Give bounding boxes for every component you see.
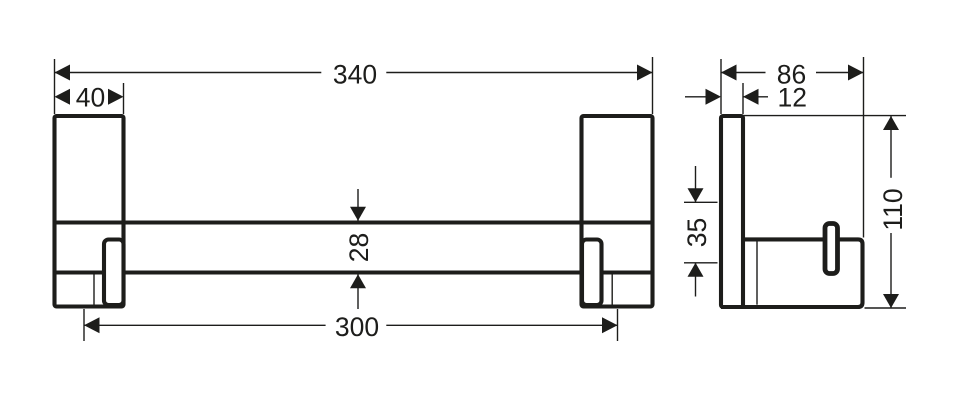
svg-text:12: 12 [778,83,807,113]
extension line left of 86/12 [720,59,722,114]
extension line right of 86 [863,57,865,238]
side view inner edge [756,241,758,304]
svg-text:300: 300 [335,312,379,342]
dim line 35 lower [695,263,697,297]
side view wall plate [721,116,743,307]
side view bar profile [721,239,863,307]
dim line 86 [721,72,766,74]
bar bottom edge [55,270,653,274]
arrow 35 up [688,263,704,277]
right bar holder clip [582,240,602,306]
arrow 110 up [883,116,899,130]
extension line right of 12 [742,83,744,114]
svg-text:28: 28 [344,233,374,262]
arrow 40 left [55,89,71,105]
extension line 35 top [684,201,718,203]
extension line right of 340 [652,57,654,114]
extension line right of 300 [617,309,619,341]
dim line 12 left tail [685,96,706,98]
extension line right of 40 [123,83,125,114]
svg-text:40: 40 [76,83,105,113]
dim line 12 right tail [743,96,768,98]
arrow 300 left [84,317,100,333]
extension line left of 300 [83,309,85,341]
arrow 28 down [350,207,366,221]
arrow 300 right [602,317,618,333]
extension line left of 340/40 [54,59,56,114]
svg-text:35: 35 [682,218,712,247]
arrow 340 left [55,65,71,81]
left bar holder clip [104,240,124,306]
side view clip [825,224,838,274]
arrow 40 right [108,89,124,105]
arrow 35 down [688,188,704,202]
svg-text:340: 340 [333,60,377,90]
dim line 340 [55,72,322,74]
left post outline [55,116,124,307]
bar top edge [55,220,653,224]
dim line 300 [84,324,326,326]
arrow 12 right outside [743,89,759,105]
arrow 28 up [350,274,366,288]
arrow 110 down [883,294,899,308]
dim line 110 [890,116,892,178]
right post inner plate edge [611,273,613,306]
dim line 28 lower [357,274,359,309]
arrow 340 right [637,65,653,81]
dim line 28 upper [357,189,359,221]
left post inner plate edge [93,273,95,306]
arrow 12 left outside [706,89,722,105]
right post outline [582,116,653,307]
extension line 110 top [743,115,906,117]
arrow 86 right [848,65,864,81]
extension line 110 bottom [865,307,907,309]
extension line 35 bottom [684,262,718,264]
svg-text:110: 110 [878,188,908,230]
dim line 35 upper [695,166,697,202]
arrow 86 left [721,65,737,81]
